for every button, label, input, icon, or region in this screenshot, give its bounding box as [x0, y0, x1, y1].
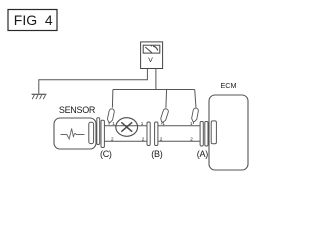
wire: meter positive lead riser: [155, 69, 157, 90]
svg-text:1: 1: [190, 121, 193, 126]
wire: drop to probe at C: [111, 90, 114, 108]
svg-text:2: 2: [160, 137, 163, 142]
svg-text:(A): (A): [197, 149, 208, 159]
connector C sensor-side half: [97, 118, 100, 145]
svg-text:1: 1: [112, 121, 115, 126]
wire 1 segment C to B: [104, 125, 147, 127]
voltmeter needle and dial icon: [145, 45, 158, 52]
connector A left half: [200, 122, 203, 147]
connector A right half: [205, 122, 208, 147]
wire 2 segment C to B: [104, 140, 147, 142]
sensor internal connector bar: [89, 122, 94, 143]
connector B left half: [147, 122, 150, 146]
svg-text:SENSOR: SENSOR: [59, 105, 96, 115]
ECM box: [209, 95, 248, 170]
test probe at C: [106, 108, 114, 125]
wire 1 segment B to A: [158, 125, 200, 127]
svg-text:2: 2: [111, 137, 114, 142]
svg-text:2: 2: [142, 137, 145, 142]
splice circle X on wire 1: [116, 118, 138, 137]
svg-text:(C): (C): [100, 149, 112, 159]
svg-text:1: 1: [141, 121, 144, 126]
svg-text:FIG 4: FIG 4: [14, 12, 53, 28]
test probe at A: [191, 108, 199, 125]
svg-text:ECM: ECM: [221, 81, 237, 90]
wire 2 segment B to A: [158, 140, 200, 142]
wire: drop to probe at A: [195, 90, 196, 108]
svg-text:V: V: [148, 57, 153, 64]
ground symbol: [32, 94, 47, 99]
connector B right half: [155, 122, 158, 146]
sensor internal waveform symbol: [61, 129, 85, 140]
wire: probe bus: [113, 89, 195, 91]
svg-text:2: 2: [190, 137, 193, 142]
voltmeter U1 body: [141, 42, 163, 69]
wire: drop to probe at B: [165, 90, 168, 108]
figure label box FIG 4: [8, 10, 57, 31]
svg-text:(B): (B): [151, 149, 162, 159]
ECM internal connector bar: [211, 121, 216, 144]
wire: meter negative lead to ground: [39, 69, 148, 94]
test probe at B: [159, 108, 169, 125]
connector C harness-side half: [101, 120, 104, 147]
sensor body: [54, 118, 96, 149]
